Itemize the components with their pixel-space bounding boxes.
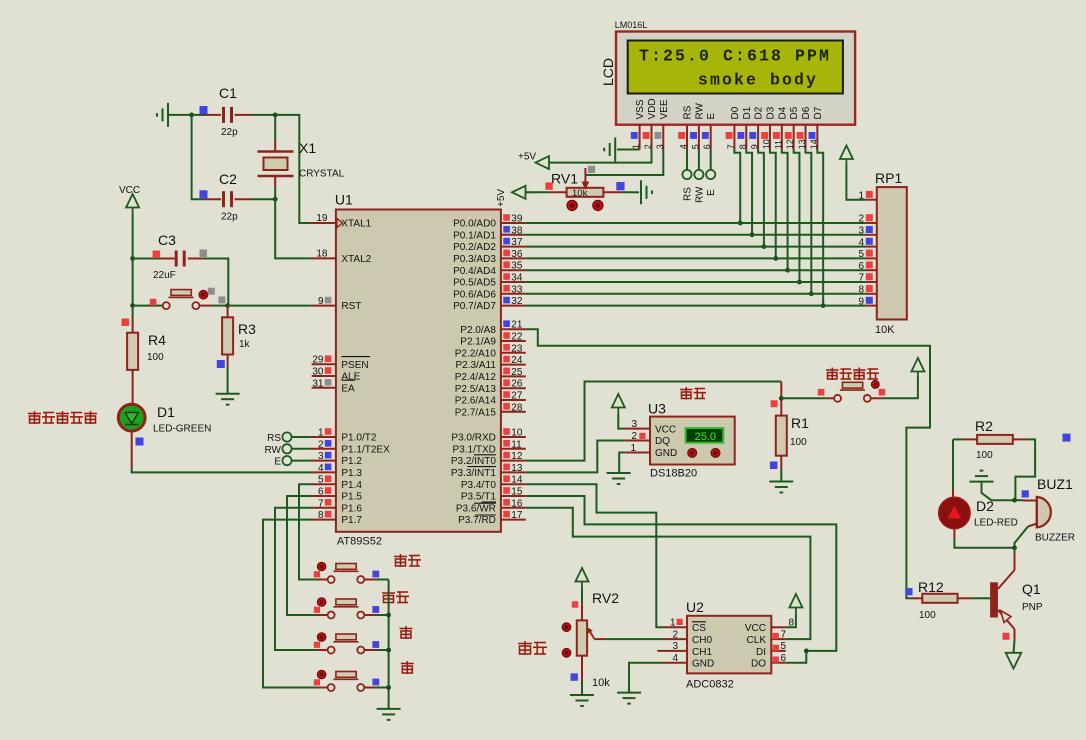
node key4 xyxy=(386,685,391,690)
svg-text:P3.1/TXD: P3.1/TXD xyxy=(453,444,496,455)
svg-text:XTAL1: XTAL1 xyxy=(341,219,371,230)
node C3-left xyxy=(130,256,135,261)
svg-text:LCD: LCD xyxy=(600,58,616,86)
node C2-right junction xyxy=(273,197,278,202)
svg-text:23: 23 xyxy=(511,343,523,354)
wire C2 to XTAL2 pin 18 xyxy=(275,199,311,258)
power +5V to LCD VDD xyxy=(549,150,652,163)
push button 模拟人体 xyxy=(781,397,826,399)
svg-text:P3.7/RD: P3.7/RD xyxy=(458,515,496,526)
svg-text:P2.6/A14: P2.6/A14 xyxy=(455,396,497,407)
svg-text:ADC0832: ADC0832 xyxy=(686,679,734,691)
resistor R1 100 xyxy=(780,382,782,416)
svg-text:9: 9 xyxy=(858,296,864,307)
node buzzer top xyxy=(1012,498,1017,503)
svg-text:18: 18 xyxy=(316,248,328,259)
U3 pin stubs xyxy=(625,428,650,430)
svg-text:5: 5 xyxy=(690,144,700,149)
U3 actuator buttons xyxy=(688,448,697,457)
wire LCD VEE to RV1 wiper xyxy=(585,150,663,176)
U1 XTAL1 clock chevron xyxy=(337,219,343,228)
inverted ground above D2 xyxy=(970,471,994,482)
svg-text:12: 12 xyxy=(511,451,523,462)
svg-text:P1.4: P1.4 xyxy=(341,480,362,491)
ground for U3 GND xyxy=(619,453,625,474)
ground at RV1 right xyxy=(641,180,652,204)
svg-text:7: 7 xyxy=(781,629,787,640)
svg-text:6: 6 xyxy=(702,144,712,149)
svg-text:P3.5/T1: P3.5/T1 xyxy=(461,492,496,503)
svg-text:U2: U2 xyxy=(686,599,704,615)
svg-text:VCC: VCC xyxy=(745,623,766,634)
svg-text:22: 22 xyxy=(511,332,523,343)
svg-text:1k: 1k xyxy=(239,339,251,350)
svg-text:+5V: +5V xyxy=(496,189,507,207)
RV1 wiper arrow xyxy=(584,168,586,183)
temp sensor U3 DS18B20 body xyxy=(650,417,735,465)
svg-text:4: 4 xyxy=(858,237,864,248)
terminal RS below LCD xyxy=(686,150,688,170)
svg-text:8: 8 xyxy=(858,285,864,296)
svg-text:3: 3 xyxy=(672,641,678,652)
R4 red marker xyxy=(122,319,130,327)
svg-text:RST: RST xyxy=(341,301,361,312)
wire R2 left down to D2 xyxy=(952,439,954,489)
svg-text:27: 27 xyxy=(511,391,523,402)
node C1-right junction xyxy=(273,113,278,118)
svg-text:D2: D2 xyxy=(976,498,994,514)
node R1 top xyxy=(779,396,784,401)
svg-text:P2.7/A15: P2.7/A15 xyxy=(455,407,497,418)
svg-text:P3.3/INT1: P3.3/INT1 xyxy=(451,468,496,479)
svg-text:T:25.0 C:618 PPM: T:25.0 C:618 PPM xyxy=(639,47,831,66)
lcd LM016L body xyxy=(616,32,855,125)
svg-text:6: 6 xyxy=(781,653,787,664)
svg-text:P2.2/A10: P2.2/A10 xyxy=(455,348,497,359)
svg-text:AT89S52: AT89S52 xyxy=(337,536,382,548)
terminal RW at P1.1 xyxy=(282,444,291,453)
U2 pin stubs right xyxy=(771,626,786,628)
power +5V to U3 VCC xyxy=(612,394,625,414)
capacitor C2 xyxy=(204,198,221,200)
node collector xyxy=(1012,545,1017,550)
svg-text:36: 36 xyxy=(511,249,523,260)
resistor R3 1k xyxy=(227,306,229,318)
svg-text:LED-GREEN: LED-GREEN xyxy=(153,424,211,435)
svg-text:C1: C1 xyxy=(219,85,237,101)
terminal RS at P1.0 xyxy=(282,432,291,441)
svg-text:5: 5 xyxy=(781,641,787,652)
svg-text:E: E xyxy=(706,113,717,120)
svg-text:1: 1 xyxy=(670,618,676,629)
svg-text:4: 4 xyxy=(318,463,324,474)
wire D2 cathode to collector node xyxy=(953,529,955,538)
svg-text:D1: D1 xyxy=(157,404,175,420)
svg-text:R4: R4 xyxy=(148,332,166,348)
svg-text:19: 19 xyxy=(316,213,328,224)
svg-text:1: 1 xyxy=(318,428,324,439)
U2 pin stubs left xyxy=(664,626,688,628)
C2 blue marker xyxy=(200,190,208,198)
svg-text:2: 2 xyxy=(643,144,653,149)
svg-text:BUZZER: BUZZER xyxy=(1035,533,1075,544)
wire P3.6-WR to ADC CLK xyxy=(526,508,811,639)
C3 red marker xyxy=(153,251,161,259)
svg-text:33: 33 xyxy=(511,284,523,295)
node C1-left junction xyxy=(189,113,194,118)
svg-text:P1.2: P1.2 xyxy=(341,456,362,467)
RV1 actuator buttons xyxy=(567,200,577,210)
svg-text:Q1: Q1 xyxy=(1022,581,1041,597)
svg-text:13: 13 xyxy=(511,463,523,474)
svg-text:E: E xyxy=(706,189,717,196)
svg-text:D7: D7 xyxy=(813,106,824,119)
Q1 emitter arrow xyxy=(1001,611,1012,623)
svg-text:C2: C2 xyxy=(219,171,237,187)
svg-text:100: 100 xyxy=(976,450,993,461)
svg-text:P0.6/AD6: P0.6/AD6 xyxy=(453,289,496,300)
svg-text:100: 100 xyxy=(147,352,164,363)
svg-text:22p: 22p xyxy=(221,212,238,223)
svg-text:VDD: VDD xyxy=(647,98,658,119)
wire DO up to DI node xyxy=(786,651,807,663)
resistor R2 100 xyxy=(977,435,1013,444)
svg-text:DS18B20: DS18B20 xyxy=(650,468,697,480)
wire P3.3-INT1 to DS18B20 DQ xyxy=(526,441,625,473)
svg-text:5: 5 xyxy=(318,475,324,486)
power +5V to RP1 pin1 xyxy=(840,146,853,166)
svg-text:4: 4 xyxy=(672,653,678,664)
node reset-row-left xyxy=(130,303,135,308)
svg-text:D0: D0 xyxy=(730,106,741,119)
svg-text:14: 14 xyxy=(511,475,523,486)
wire junction down to C2 xyxy=(192,115,204,199)
adc U2 ADC0832 body xyxy=(687,616,771,674)
svg-text:P3.6/WR: P3.6/WR xyxy=(456,503,496,514)
reset button gray markers xyxy=(208,288,215,295)
ground for U2 GND xyxy=(629,663,664,693)
power +5V to U2 VCC xyxy=(789,594,802,614)
svg-text:P2.5/A13: P2.5/A13 xyxy=(455,384,497,395)
svg-text:R1: R1 xyxy=(791,415,809,431)
svg-text:VEE: VEE xyxy=(659,99,670,119)
svg-text:U3: U3 xyxy=(648,401,666,417)
svg-text:RS: RS xyxy=(683,105,694,119)
svg-text:2: 2 xyxy=(631,431,637,442)
svg-text:DQ: DQ xyxy=(655,436,670,447)
svg-text:E: E xyxy=(274,457,281,468)
svg-text:12: 12 xyxy=(785,139,795,149)
svg-text:LED-RED: LED-RED xyxy=(974,518,1018,529)
svg-text:RW: RW xyxy=(694,186,705,203)
C1 blue marker xyxy=(200,106,208,114)
wire ground to C1 xyxy=(168,114,192,116)
svg-text:38: 38 xyxy=(511,225,523,236)
svg-text:7: 7 xyxy=(726,144,736,149)
svg-text:11: 11 xyxy=(773,140,783,149)
push button key3 xyxy=(317,649,328,651)
label 减 xyxy=(401,661,414,674)
svg-text:P2.0/A8: P2.0/A8 xyxy=(460,325,496,336)
RV1 markers xyxy=(545,182,552,189)
power +5V right of button xyxy=(911,358,924,378)
svg-text:10K: 10K xyxy=(875,324,895,336)
capacitor C3 22uF xyxy=(133,258,160,260)
wire C1 to XTAL1 pin 19 xyxy=(275,115,311,223)
lcd pin stubs, numbers, markers xyxy=(639,125,641,150)
reset button red marker xyxy=(150,299,157,306)
C3 gray marker xyxy=(200,250,208,258)
svg-text:3: 3 xyxy=(631,419,637,430)
svg-text:CLK: CLK xyxy=(747,635,767,646)
node key3 xyxy=(386,648,391,653)
led D2 LED-RED xyxy=(952,489,954,497)
svg-text:P1.5: P1.5 xyxy=(341,492,362,503)
mcu U1 AT89S52 body xyxy=(336,210,501,532)
svg-text:7: 7 xyxy=(858,273,864,284)
node RST junction xyxy=(225,303,230,308)
svg-text:34: 34 xyxy=(511,273,523,284)
svg-text:8: 8 xyxy=(318,510,324,521)
svg-text:RW: RW xyxy=(265,445,282,456)
svg-text:P1.1/T2EX: P1.1/T2EX xyxy=(341,444,390,455)
lcd screen xyxy=(628,41,843,94)
R12 blue marker xyxy=(905,588,912,595)
wire P3.4-T0 to ADC CS xyxy=(526,484,664,627)
svg-text:P1.0/T2: P1.0/T2 xyxy=(341,433,376,444)
terminal E at P1.2 xyxy=(282,456,291,465)
svg-text:P3.2/INT0: P3.2/INT0 xyxy=(451,456,496,467)
label 烟雾 xyxy=(518,641,532,655)
svg-text:22uF: 22uF xyxy=(153,270,176,281)
ground top-left xyxy=(157,103,168,127)
svg-text:3: 3 xyxy=(655,144,665,149)
label 布防 xyxy=(394,554,407,567)
svg-text:24: 24 xyxy=(511,355,523,366)
wire P2.0 to R12 (alarm drive) xyxy=(526,329,930,598)
svg-text:PNP: PNP xyxy=(1022,602,1043,613)
ground below R1 xyxy=(769,482,793,493)
R3 blue marker xyxy=(217,360,225,368)
node DI-DO xyxy=(804,649,809,654)
ground keypad xyxy=(377,709,401,720)
svg-text:P0.3/AD3: P0.3/AD3 xyxy=(453,254,496,265)
pot RV2 10k xyxy=(577,620,587,655)
wires LCD D0-D7 down to P0 bus xyxy=(734,150,740,224)
svg-text:13: 13 xyxy=(797,139,807,149)
svg-text:PSEN: PSEN xyxy=(341,360,368,371)
ground below R3 xyxy=(216,394,240,405)
svg-text:D5: D5 xyxy=(789,106,800,119)
buzzer BUZ1 xyxy=(1015,499,1024,501)
svg-text:XTAL2: XTAL2 xyxy=(341,254,371,265)
svg-text:10: 10 xyxy=(511,428,523,439)
svg-text:9: 9 xyxy=(318,296,324,307)
svg-text:X1: X1 xyxy=(299,140,316,156)
svg-text:15: 15 xyxy=(511,487,523,498)
ground arrow at Q1 emitter xyxy=(1014,640,1015,653)
svg-text:4: 4 xyxy=(679,144,689,149)
svg-text:+5V: +5V xyxy=(518,152,536,163)
svg-text:37: 37 xyxy=(511,237,523,248)
RP1 pin stubs xyxy=(866,199,877,201)
svg-text:EA: EA xyxy=(341,383,355,394)
wire P3.5-T1 to ADC DI/DO xyxy=(526,496,837,651)
svg-text:P0.1/AD1: P0.1/AD1 xyxy=(453,230,496,241)
R1 markers xyxy=(771,400,778,407)
svg-text:P1.6: P1.6 xyxy=(341,503,362,514)
D1 blue marker xyxy=(136,438,144,446)
svg-text:2: 2 xyxy=(318,439,324,450)
svg-text:R12: R12 xyxy=(918,579,944,595)
svg-text:P2.4/A12: P2.4/A12 xyxy=(455,372,497,383)
wire VCC rail to reset row xyxy=(132,259,134,306)
svg-text:RW: RW xyxy=(694,102,705,119)
svg-text:DI: DI xyxy=(756,647,766,658)
svg-text:6: 6 xyxy=(318,487,324,498)
svg-text:10: 10 xyxy=(761,139,771,149)
svg-text:ALE: ALE xyxy=(341,372,360,383)
svg-text:BUZ1: BUZ1 xyxy=(1037,476,1073,492)
svg-text:16: 16 xyxy=(511,498,523,509)
svg-text:R3: R3 xyxy=(238,321,256,337)
wires P0.0-P0.7 to RP1 xyxy=(526,222,866,224)
svg-text:P1.7: P1.7 xyxy=(341,515,362,526)
svg-text:6: 6 xyxy=(858,261,864,272)
terminal E below LCD xyxy=(710,150,712,170)
push button key4 xyxy=(317,687,328,689)
U1 right pin stubs with numbers xyxy=(501,222,526,224)
RV2 top to +5V xyxy=(581,604,583,620)
svg-text:31: 31 xyxy=(312,378,324,389)
svg-text:7: 7 xyxy=(318,498,324,509)
svg-text:32: 32 xyxy=(511,296,523,307)
node key2 xyxy=(386,613,391,618)
push button key1 xyxy=(317,579,328,581)
label 模拟人体 xyxy=(826,368,839,381)
svg-text:P0.0/AD0: P0.0/AD0 xyxy=(453,219,496,230)
keypad common rail xyxy=(388,580,390,709)
svg-text:39: 39 xyxy=(511,214,523,225)
svg-text:GND: GND xyxy=(655,448,677,459)
svg-text:CH1: CH1 xyxy=(692,647,712,658)
svg-text:17: 17 xyxy=(511,510,523,521)
svg-text:P0.5/AD5: P0.5/AD5 xyxy=(453,278,496,289)
svg-text:25: 25 xyxy=(511,367,523,378)
BUZ1 blue marker xyxy=(1022,490,1029,497)
svg-text:RS: RS xyxy=(683,187,694,201)
wire P3.2-INT0 to R1 node xyxy=(526,382,782,461)
svg-text:100: 100 xyxy=(919,610,936,621)
svg-text:26: 26 xyxy=(511,379,523,390)
svg-text:P0.2/AD2: P0.2/AD2 xyxy=(453,242,496,253)
crystal X1 xyxy=(274,115,276,140)
svg-text:P1.3: P1.3 xyxy=(341,468,362,479)
Q1 red marker xyxy=(1003,633,1010,640)
svg-text:RS: RS xyxy=(267,433,281,444)
label 设置 xyxy=(382,591,395,604)
button markers xyxy=(818,389,825,396)
svg-text:29: 29 xyxy=(312,355,324,366)
U3 DQ red marker xyxy=(639,433,645,439)
svg-text:D1: D1 xyxy=(742,106,753,119)
svg-text:U1: U1 xyxy=(335,192,353,208)
svg-text:R2: R2 xyxy=(975,418,993,434)
label 布防指示灯 xyxy=(28,411,41,424)
terminal RW below LCD xyxy=(698,150,700,170)
power +5V at RV1 left xyxy=(512,186,532,199)
svg-text:1: 1 xyxy=(630,443,636,454)
RV2 markers xyxy=(572,601,579,608)
wire R2 right to buzzer node xyxy=(1015,439,1035,500)
svg-text:smoke body: smoke body xyxy=(698,71,818,90)
RV2 wiper to ADC CH0 xyxy=(589,630,595,639)
RV2 bottom to ground xyxy=(581,656,583,680)
wire D1 cathode to P1.3 pin 4 xyxy=(131,431,133,467)
svg-text:D6: D6 xyxy=(801,106,812,119)
svg-text:P3.0/RXD: P3.0/RXD xyxy=(451,433,495,444)
svg-text:8: 8 xyxy=(738,144,748,149)
svg-text:DO: DO xyxy=(751,659,766,670)
svg-text:5: 5 xyxy=(858,249,864,260)
svg-text:D3: D3 xyxy=(765,106,776,119)
svg-text:P0.4/AD4: P0.4/AD4 xyxy=(453,266,496,277)
svg-text:RV1: RV1 xyxy=(551,171,578,187)
wires P1.4-P1.7 to keypad xyxy=(299,484,317,579)
svg-text:3: 3 xyxy=(318,451,324,462)
wire to RST pin 9 xyxy=(228,305,312,307)
svg-text:22p: 22p xyxy=(221,127,238,138)
svg-text:VSS: VSS xyxy=(635,99,646,119)
resistor R4 100 xyxy=(132,318,134,333)
svg-text:11: 11 xyxy=(511,439,522,450)
svg-text:28: 28 xyxy=(511,402,523,413)
svg-text:14: 14 xyxy=(809,139,819,149)
svg-text:3: 3 xyxy=(858,226,864,237)
svg-text:VCC: VCC xyxy=(655,424,676,435)
U1 left pin stubs with numbers xyxy=(312,222,336,224)
svg-text:100: 100 xyxy=(790,437,807,448)
svg-text:30: 30 xyxy=(312,367,324,378)
svg-text:D4: D4 xyxy=(777,106,788,119)
svg-text:10k: 10k xyxy=(592,677,610,689)
label 加 xyxy=(400,626,413,639)
svg-text:9: 9 xyxy=(750,144,760,149)
reset push button xyxy=(133,305,163,307)
respack RP1 body xyxy=(877,187,907,319)
RV2 actuator buttons xyxy=(562,623,571,632)
svg-text:VCC: VCC xyxy=(119,185,140,196)
svg-text:21: 21 xyxy=(511,320,523,331)
capacitor C1 xyxy=(192,114,205,116)
svg-text:LM016L: LM016L xyxy=(615,20,648,30)
svg-text:GND: GND xyxy=(692,659,714,670)
svg-text:CRYSTAL: CRYSTAL xyxy=(299,169,345,180)
svg-text:RP1: RP1 xyxy=(875,170,902,186)
wire VCC rail down xyxy=(132,214,134,259)
svg-text:2: 2 xyxy=(858,214,864,225)
transistor Q1 PNP xyxy=(1014,548,1016,553)
svg-text:35: 35 xyxy=(511,261,523,272)
svg-text:P2.3/A11: P2.3/A11 xyxy=(455,360,496,371)
svg-text:2: 2 xyxy=(672,629,678,640)
U3 display 25.0 xyxy=(686,428,724,443)
pot RV1 10k xyxy=(567,188,604,197)
push button key2 xyxy=(317,614,328,616)
svg-text:25.0: 25.0 xyxy=(695,431,716,443)
resistor R12 100 xyxy=(910,597,922,599)
svg-text:P3.4/T0: P3.4/T0 xyxy=(461,480,496,491)
